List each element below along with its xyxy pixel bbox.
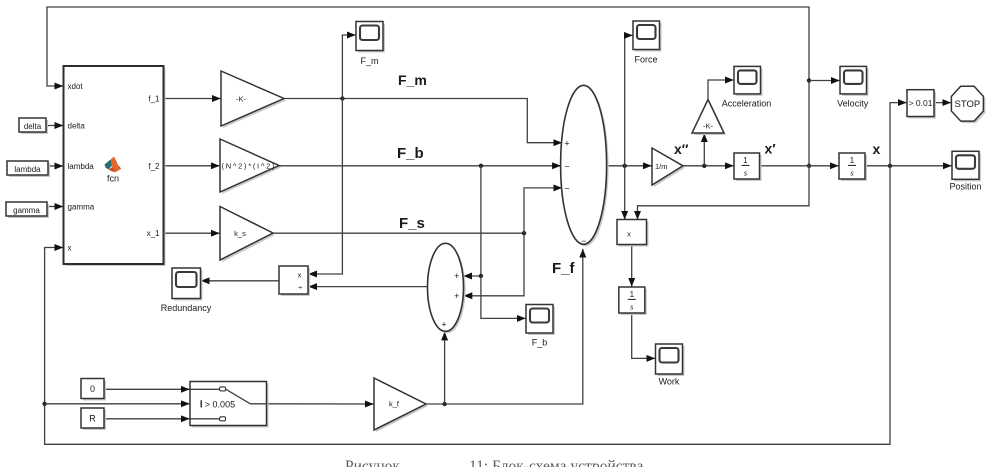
svg-text:(N^2)*(I^2): (N^2)*(I^2) (222, 161, 276, 170)
svg-text:F_b: F_b (532, 338, 548, 348)
constant 0 (81, 379, 106, 401)
wire branch up to gain K6 (703, 134, 705, 166)
junction (807, 78, 811, 82)
wire F_m branch to product P1 input 1 (309, 99, 343, 275)
wire product P2 output down to integrator I3 (631, 245, 633, 287)
svg-text:x: x (68, 244, 72, 253)
svg-text:0: 0 (90, 384, 95, 394)
svg-text:gamma: gamma (13, 206, 40, 215)
junction (702, 164, 706, 168)
wire x' loop down to product P2 right input (638, 166, 810, 220)
svg-text:Acceleration: Acceleration (722, 99, 772, 109)
wire F_s branch down to sum S2 + input (464, 233, 524, 296)
scope F_m (356, 22, 385, 67)
integrator I1 1/s (734, 153, 762, 181)
wire delta to fcn (46, 125, 63, 127)
wire F_s from K3 to sum S1 - input (273, 232, 524, 234)
svg-text:F_s: F_s (399, 215, 425, 232)
gain K3 k_s (220, 207, 275, 263)
svg-text:+: + (441, 320, 446, 330)
scope Work (656, 344, 685, 387)
scope Redundancy (161, 268, 212, 313)
svg-text:x: x (298, 270, 302, 279)
svg-text:÷: ÷ (298, 283, 302, 292)
wire sum S2 output to product P1 input 2 (309, 286, 428, 288)
junction (522, 231, 526, 235)
integrator I2 1/s (839, 153, 867, 181)
svg-text:-K-: -K- (236, 94, 247, 103)
svg-text:f_2: f_2 (148, 162, 160, 171)
wire switch output to gain k_f (267, 403, 374, 405)
junction (623, 164, 627, 168)
svg-text:> 0.01: > 0.01 (909, 98, 933, 108)
wire 1/m output to integrator I1 (683, 165, 734, 167)
svg-text:Velocity: Velocity (837, 99, 869, 109)
svg-text:> 0.005: > 0.005 (205, 399, 235, 409)
constant R (81, 408, 106, 430)
wire branch down to product P2 left input (624, 166, 626, 220)
wire F_b from K2 to sum S1 - input (279, 165, 561, 167)
svg-text:fcn: fcn (107, 174, 119, 184)
svg-text:F_b: F_b (397, 145, 424, 162)
wire gain K6 to Acceleration scope (708, 80, 734, 100)
wire F_s branch up into sum S1 (524, 188, 562, 233)
junction (807, 164, 811, 168)
wire x from I2 to Position scope (865, 165, 952, 167)
gain K5 1/m (652, 148, 685, 187)
wire F_b branch to scope F_b (481, 276, 526, 318)
junction (42, 402, 46, 406)
gain K6 -K- pointing up (692, 100, 726, 136)
product P2 (617, 220, 649, 247)
sum S1 big ellipse (561, 85, 609, 246)
svg-text:11: Блок-схема устройства: 11: Блок-схема устройства (469, 458, 644, 467)
svg-text:F_m: F_m (361, 56, 379, 66)
scope Force (633, 21, 662, 65)
svg-text:Position: Position (949, 182, 981, 192)
svg-text:−: − (581, 236, 586, 246)
svg-text:1: 1 (743, 156, 748, 165)
svg-text:F_m: F_m (398, 72, 427, 88)
svg-text:k_f: k_f (389, 400, 400, 409)
svg-text:STOP: STOP (955, 99, 981, 110)
junction (479, 274, 483, 278)
svg-text:−: − (564, 161, 569, 171)
wire lambda to fcn (48, 165, 63, 167)
constant lambda (7, 161, 50, 177)
wire branch up into sum S2 bottom + input (444, 332, 446, 404)
svg-text:x″: x″ (674, 141, 689, 157)
constant gamma (6, 202, 49, 218)
svg-text:Force: Force (634, 55, 657, 65)
integrator I3 1/s (619, 287, 647, 315)
product P1 (flipped) (279, 266, 310, 296)
wire F_m branch to scope F_m (342, 35, 355, 99)
wire f_1 to gain K1 (164, 98, 221, 100)
svg-text:x_1: x_1 (147, 229, 160, 238)
scope F_b (526, 305, 555, 348)
svg-text:−: − (564, 183, 569, 193)
wire x' from I1 to I2 (760, 165, 839, 167)
constant delta (19, 118, 48, 134)
wire constant R to switch (104, 418, 190, 420)
wire gamma to fcn (47, 206, 63, 208)
wire product P1 output to Redundancy scope (201, 280, 279, 282)
svg-text:Redundancy: Redundancy (161, 303, 212, 313)
compare block > 0.01 (907, 90, 936, 119)
svg-text:lambda: lambda (68, 162, 95, 171)
switch block (190, 382, 269, 428)
svg-text:+: + (564, 138, 569, 148)
wire sum S1 output to gain 1/m (607, 165, 652, 167)
wire F_b branch down to sum S2 + input (464, 166, 481, 276)
svg-text:Рисунок: Рисунок (345, 458, 400, 467)
STOP block (951, 86, 985, 123)
wire F_m from K1 to sum S1 + input (284, 99, 562, 143)
svg-text:R: R (89, 414, 96, 424)
junction (888, 164, 892, 168)
gain K1 -K- (221, 71, 286, 128)
svg-text:1: 1 (850, 156, 855, 165)
wire f_2 to gain K2 (164, 165, 220, 167)
svg-text:-K-: -K- (703, 122, 714, 131)
wire branch to switch control input (45, 403, 190, 405)
svg-text:f_1: f_1 (148, 95, 160, 104)
wire F_f from k_f up into sum S1 bottom - input (426, 249, 583, 404)
MATLAB Function block fcn (64, 66, 166, 266)
wire integrator I3 output to Work scope (632, 313, 655, 358)
svg-text:lambda: lambda (14, 165, 41, 174)
svg-text:x: x (873, 141, 881, 157)
scope Velocity (837, 66, 869, 108)
junction (479, 164, 483, 168)
svg-text:delta: delta (68, 122, 86, 131)
svg-text:F_f: F_f (552, 260, 576, 277)
svg-text:Work: Work (659, 377, 680, 387)
junction (442, 402, 446, 406)
scope Position (949, 151, 981, 191)
svg-text:x′: x′ (765, 141, 777, 157)
svg-text:+: + (454, 291, 459, 301)
sum S2 small ellipse (428, 243, 466, 333)
wire x_1 to gain K3 (164, 232, 220, 234)
gain K2 (N^2)*(I^2) (220, 139, 281, 194)
wire xdot feedback top loop (47, 7, 809, 166)
wire x feedback bottom loop (45, 166, 890, 445)
wire branch to Force scope (625, 35, 633, 165)
svg-text:+: + (454, 271, 459, 281)
wire branch up to compare block (890, 103, 907, 166)
svg-text:xdot: xdot (68, 82, 84, 91)
wire compare to STOP (934, 102, 951, 104)
svg-text:gamma: gamma (68, 203, 95, 212)
svg-text:delta: delta (24, 122, 42, 131)
junction (340, 96, 344, 100)
svg-text:1/m: 1/m (655, 162, 668, 171)
svg-text:k_s: k_s (234, 229, 246, 238)
scope Acceleration (722, 66, 772, 108)
gain K4 k_f (374, 378, 428, 432)
MATLAB membrane logo (105, 157, 122, 173)
wire constant 0 to switch (104, 388, 190, 390)
svg-text:1: 1 (630, 290, 635, 299)
wire to Velocity scope (809, 80, 840, 82)
svg-text:x: x (627, 229, 631, 238)
